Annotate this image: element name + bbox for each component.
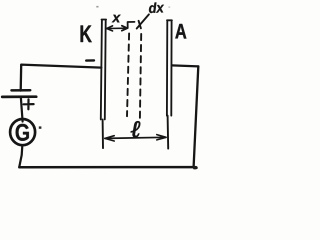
battery B1 positive plate (long)	[2, 95, 36, 98]
dx pointer arrow barb	[139, 21, 141, 29]
right vertical wire	[194, 66, 199, 167]
galvanometer G1 circle	[10, 119, 35, 145]
label G (galvanometer)	[16, 124, 29, 141]
dx pointer arrow shaft	[137, 14, 149, 28]
label l (plate length)	[131, 121, 140, 137]
plate K (double line electrode)	[101, 20, 106, 120]
ink blob at bottom-right wire corner	[193, 166, 198, 170]
wire galvanometer to bottom-left corner	[19, 146, 22, 167]
label K (cathode plate)	[81, 25, 92, 42]
label dx (strip width)	[149, 2, 164, 13]
scan speck top right	[168, 6, 170, 7]
scan speck right of galvanometer	[39, 126, 42, 128]
label x (strip position)	[112, 15, 121, 22]
minus polarity label at plate K	[86, 59, 94, 62]
wire from plate A to top-right corner	[172, 65, 199, 66]
plate K extension line	[102, 119, 104, 148]
l dimension double arrow	[105, 137, 166, 138]
bottom wire	[19, 166, 193, 169]
battery B1 negative plate (short)	[12, 89, 31, 92]
x dimension double arrow	[107, 27, 128, 29]
wire from plate K to top-left corner, down to battery	[21, 65, 102, 91]
plate A extension line	[167, 116, 170, 149]
dashed strip left boundary	[127, 33, 129, 116]
battery plus label	[24, 99, 34, 109]
plate A (double line electrode)	[167, 20, 172, 115]
wire battery to galvanometer	[21, 98, 23, 122]
label A (anode plate)	[175, 24, 186, 38]
dashed strip right boundary	[140, 34, 141, 119]
bracket at top of strip	[128, 22, 135, 28]
scan speck near top	[96, 6, 98, 8]
